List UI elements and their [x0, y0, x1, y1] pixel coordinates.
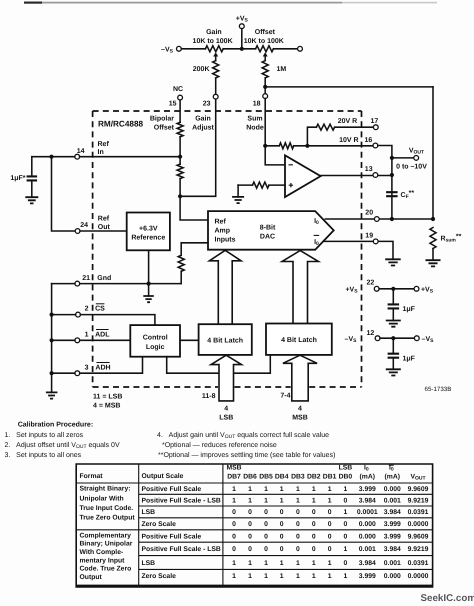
- svg-text:DB4: DB4: [275, 473, 289, 480]
- wire sum node to 10V R: [265, 145, 279, 147]
- svg-text:Positive Full Scale - LSB: Positive Full Scale - LSB: [142, 497, 221, 504]
- svg-text:1: 1: [296, 486, 300, 493]
- svg-text:0: 0: [232, 533, 236, 540]
- svg-text:Positive Full Scale: Positive Full Scale: [142, 486, 202, 493]
- svg-text:1M: 1M: [277, 66, 287, 73]
- svg-text:1: 1: [296, 560, 300, 567]
- wire Rsum to ground: [432, 249, 434, 261]
- node ADL rail junction: [50, 338, 54, 342]
- svg-text:Complementary: Complementary: [80, 532, 132, 539]
- node sum node: [263, 144, 267, 148]
- svg-text:1: 1: [85, 331, 89, 338]
- wire ground to input resistor: [238, 184, 252, 186]
- wire Ref In: [32, 156, 180, 158]
- svg-text:CS: CS: [95, 306, 105, 313]
- svg-text:0.001: 0.001: [384, 560, 401, 567]
- svg-text:NC: NC: [173, 86, 183, 93]
- resistor bipolar offset lower: [177, 164, 183, 179]
- svg-text:Unipolar With: Unipolar With: [80, 495, 124, 502]
- control logic U4: [130, 325, 180, 357]
- node -Vs bypass junction: [391, 336, 395, 340]
- wire junction to right rail: [265, 86, 433, 88]
- wire reference to gnd line: [148, 250, 150, 296]
- wire to bypass cap: [392, 338, 394, 354]
- ground +Vs bypass: [386, 321, 401, 327]
- svg-text:Ref: Ref: [98, 214, 110, 222]
- svg-text:0: 0: [312, 509, 316, 516]
- svg-text:1: 1: [232, 573, 236, 580]
- svg-text:Calibration Procedure:: Calibration Procedure:: [18, 421, 93, 429]
- svg-text:Output Scale: Output Scale: [142, 473, 184, 480]
- svg-text:Bipolar: Bipolar: [150, 114, 174, 122]
- capacitor 1uF (-Vs bypass): [388, 354, 400, 358]
- capacitor 1uF* (ref bypass): [27, 176, 37, 180]
- node I0 right rail junction: [431, 217, 435, 221]
- svg-text:Gnd: Gnd: [97, 274, 111, 282]
- svg-text:0: 0: [328, 546, 332, 553]
- wire to ref-in junction: [179, 137, 181, 164]
- svg-text:DB1: DB1: [323, 473, 337, 480]
- ground -Vs bypass: [386, 369, 401, 375]
- bus arrow latch2 to DAC: [282, 251, 318, 324]
- terminal +Vs right: [414, 286, 419, 291]
- svg-text:DB7: DB7: [227, 473, 241, 480]
- svg-text:1: 1: [280, 497, 284, 504]
- svg-text:12: 12: [367, 330, 375, 337]
- wire pin22 to +Vs terminal: [379, 288, 414, 290]
- svg-text:1: 1: [232, 560, 236, 567]
- svg-text:1: 1: [248, 573, 252, 580]
- svg-text:17: 17: [371, 118, 379, 125]
- svg-text:0.0000: 0.0000: [408, 521, 429, 528]
- svg-text:3.984: 3.984: [359, 497, 376, 504]
- wire ADH to control logic bottom: [52, 357, 143, 374]
- svg-text:MSB: MSB: [226, 465, 241, 472]
- svg-text:I0: I0: [314, 218, 319, 226]
- svg-text:–VS: –VS: [345, 336, 358, 344]
- svg-text:0: 0: [344, 521, 348, 528]
- wire left rail to Ref Out: [52, 157, 75, 231]
- svg-text:65-1733B: 65-1733B: [425, 386, 452, 393]
- svg-text:2. Adjust offset until VOUT: 2. Adjust offset until VOUT equals 0V: [5, 441, 120, 450]
- svg-text:0: 0: [264, 509, 268, 516]
- op-amp U1: [285, 155, 321, 197]
- svg-text:Control: Control: [143, 334, 168, 342]
- svg-text:0: 0: [232, 509, 236, 516]
- svg-text:0: 0: [248, 546, 252, 553]
- terminal Vout: [414, 156, 419, 161]
- wire DAC ref amp input 2: [181, 243, 208, 256]
- svg-text:Output: Output: [80, 574, 103, 581]
- svg-text:1: 1: [232, 497, 236, 504]
- svg-text:**Optional — improves settling: **Optional — improves settling time (see…: [158, 451, 335, 459]
- wire Gnd line: [52, 283, 182, 285]
- svg-text:1: 1: [264, 560, 268, 567]
- right open terminal: [298, 46, 303, 51]
- wire 1uF cap branch: [31, 157, 33, 177]
- svg-text:13: 13: [365, 166, 373, 173]
- svg-text:0: 0: [296, 533, 300, 540]
- wire pin12 to -Vs terminal: [380, 337, 414, 339]
- bus arrow latch1 to DAC: [209, 250, 241, 324]
- wire pin18 down to sum node: [265, 99, 285, 165]
- svg-text:0: 0: [248, 533, 252, 540]
- svg-text:I0: I0: [389, 465, 394, 473]
- svg-text:1μF: 1μF: [403, 355, 416, 362]
- svg-text:0: 0: [344, 560, 348, 567]
- ground lower rail: [46, 392, 58, 398]
- svg-text:0: 0: [296, 546, 300, 553]
- svg-text:+VS: +VS: [345, 287, 358, 295]
- output scale truth table: [76, 464, 432, 587]
- svg-text:1: 1: [232, 486, 236, 493]
- svg-text:*Optional — reduces reference: *Optional — reduces reference noise: [162, 441, 277, 449]
- wire pin23 down and left to chain: [182, 99, 216, 196]
- capacitor 1uF (+Vs bypass): [388, 304, 400, 308]
- svg-text:–VS: –VS: [161, 46, 174, 54]
- svg-text:Offset: Offset: [255, 28, 276, 36]
- calibration procedure notes: [5, 421, 336, 459]
- svg-text:3.984: 3.984: [359, 560, 376, 567]
- svg-text:Ref: Ref: [215, 217, 227, 225]
- svg-text:1. Set inputs to all zeros: 1. Set inputs to all zeros: [5, 431, 84, 439]
- svg-text:24: 24: [80, 222, 88, 229]
- wire cap to ground: [392, 308, 394, 320]
- svg-text:I0: I0: [314, 239, 319, 247]
- svg-text:3.999: 3.999: [359, 486, 376, 493]
- resistor 20V R: [316, 124, 334, 130]
- svg-text:1: 1: [280, 560, 284, 567]
- ground op-amp + input: [237, 185, 239, 197]
- svg-text:9.9219: 9.9219: [408, 546, 429, 553]
- svg-text:Sum: Sum: [247, 116, 262, 123]
- node pot junction: [240, 47, 244, 51]
- wire 1M to junction: [264, 78, 266, 94]
- svg-text:Reference: Reference: [131, 234, 165, 242]
- svg-text:Binary; Unipolar: Binary; Unipolar: [80, 541, 133, 548]
- resistor Rsum**: [430, 228, 436, 249]
- node +Vs bypass junction: [391, 287, 395, 291]
- svg-text:0: 0: [232, 521, 236, 528]
- svg-text:4 Bit Latch: 4 Bit Latch: [281, 336, 317, 344]
- svg-text:9.9609: 9.9609: [408, 486, 429, 493]
- svg-text:1: 1: [328, 486, 332, 493]
- node reference gnd junction: [147, 282, 151, 286]
- wire to bypass cap: [392, 289, 394, 305]
- svg-text:16: 16: [365, 137, 373, 144]
- svg-text:0: 0: [312, 533, 316, 540]
- wire lower left rail: [51, 284, 53, 393]
- svg-text:1: 1: [312, 560, 316, 567]
- svg-text:0: 0: [280, 521, 284, 528]
- wire op-amp output to pin 13: [321, 175, 392, 177]
- svg-text:0: 0: [264, 521, 268, 528]
- svg-text:0: 0: [312, 546, 316, 553]
- svg-text:Code. True Zero: Code. True Zero: [80, 566, 132, 573]
- svg-text:SeekIC.com: SeekIC.com: [421, 593, 474, 604]
- svg-text:1: 1: [328, 573, 332, 580]
- svg-text:2: 2: [85, 306, 89, 313]
- svg-text:0: 0: [296, 509, 300, 516]
- svg-text:Amp: Amp: [215, 227, 231, 234]
- svg-text:3.999: 3.999: [359, 573, 376, 580]
- svg-text:Gain: Gain: [206, 28, 222, 36]
- svg-text:1: 1: [344, 573, 348, 580]
- svg-text:1: 1: [328, 560, 332, 567]
- svg-text:3.984: 3.984: [384, 546, 401, 553]
- wire I0 output to pin 20: [325, 218, 433, 220]
- wire pin15 into box: [179, 100, 181, 122]
- svg-text:In: In: [98, 149, 104, 156]
- svg-text:Straight Binary:: Straight Binary:: [80, 486, 131, 493]
- svg-text:MSB: MSB: [292, 414, 308, 421]
- wire 20V R to pin 17: [335, 126, 374, 128]
- svg-text:11-8: 11-8: [202, 393, 216, 400]
- svg-text:Zero Scale: Zero Scale: [142, 573, 177, 580]
- wire 200K to pin 23: [215, 78, 217, 94]
- svg-text:0.000: 0.000: [359, 521, 376, 528]
- svg-text:200K: 200K: [193, 66, 210, 73]
- svg-text:0: 0: [328, 533, 332, 540]
- top page rule: [24, 2, 42, 4]
- resistor 10V R: [279, 143, 293, 149]
- svg-text:0: 0: [232, 546, 236, 553]
- svg-text:1: 1: [264, 573, 268, 580]
- svg-text:1: 1: [344, 486, 348, 493]
- svg-text:Positive Full Scale - LSB: Positive Full Scale - LSB: [142, 546, 221, 553]
- svg-text:1: 1: [344, 546, 348, 553]
- svg-text:0.001: 0.001: [359, 546, 376, 553]
- svg-text:I0: I0: [364, 465, 369, 473]
- svg-text:0: 0: [280, 533, 284, 540]
- node CF to I0 line: [390, 217, 394, 221]
- svg-text:0: 0: [248, 509, 252, 516]
- svg-text:ADL: ADL: [95, 331, 110, 338]
- node output/CF junction: [390, 173, 394, 177]
- svg-text:True Zero Output: True Zero Output: [80, 515, 136, 522]
- svg-text:LSB: LSB: [219, 414, 233, 421]
- svg-text:–VS: –VS: [422, 336, 435, 344]
- svg-text:1: 1: [264, 497, 268, 504]
- svg-text:RM/RC4888: RM/RC4888: [98, 120, 143, 129]
- svg-text:0.0391: 0.0391: [408, 509, 429, 516]
- svg-text:+VS: +VS: [236, 16, 249, 24]
- svg-text:0: 0: [248, 521, 252, 528]
- svg-text:1: 1: [312, 573, 316, 580]
- node CS rail junction: [50, 313, 54, 317]
- svg-text:DB3: DB3: [291, 473, 305, 480]
- resistor ref amp input to gnd: [178, 255, 184, 271]
- svg-text:Logic: Logic: [146, 343, 165, 351]
- svg-text:VOUT: VOUT: [410, 473, 425, 481]
- 4 bit latch LSB U5: [199, 324, 252, 355]
- wire Ref Out to reference box: [80, 230, 127, 232]
- svg-text:With Comple-: With Comple-: [80, 549, 124, 556]
- svg-text:1: 1: [312, 486, 316, 493]
- svg-text:0: 0: [344, 497, 348, 504]
- svg-text:1: 1: [312, 497, 316, 504]
- svg-text:True Input Code.: True Input Code.: [80, 505, 134, 512]
- wire pin16 to output corner: [378, 146, 392, 220]
- wire Offset pot to right terminal: [273, 48, 297, 50]
- node gain-adjust junction: [178, 194, 182, 198]
- ground pin 19: [385, 259, 401, 265]
- svg-text:0: 0: [344, 533, 348, 540]
- svg-text:Positive Full Scale: Positive Full Scale: [142, 533, 202, 540]
- bus arrow 4 MSB input: [283, 355, 317, 401]
- svg-text:ADH: ADH: [95, 364, 110, 371]
- svg-text:DB6: DB6: [243, 473, 257, 480]
- node feedback junction: [305, 144, 309, 148]
- svg-text:LSB: LSB: [339, 465, 353, 472]
- wire ADL to control logic: [52, 339, 131, 341]
- wire up to 20V R: [307, 127, 316, 146]
- svg-text:Out: Out: [98, 224, 111, 231]
- svg-text:1: 1: [280, 573, 284, 580]
- svg-text:VOUT: VOUT: [409, 147, 424, 155]
- svg-text:1: 1: [248, 486, 252, 493]
- ground reference: [143, 296, 154, 302]
- svg-text:+6.3V: +6.3V: [139, 225, 158, 232]
- ground ref bypass: [25, 197, 38, 203]
- svg-text:3: 3: [85, 364, 89, 371]
- svg-text:0: 0: [312, 521, 316, 528]
- 8-bit DAC U2: [208, 211, 334, 250]
- svg-text:Offset: Offset: [154, 123, 175, 131]
- node 1M output junction: [263, 85, 267, 89]
- svg-text:Zero Scale: Zero Scale: [142, 521, 177, 528]
- svg-text:0.0391: 0.0391: [408, 560, 429, 567]
- resistor op-amp + input: [253, 182, 270, 188]
- wire resistor to op-amp: [269, 184, 285, 186]
- svg-text:22: 22: [367, 279, 375, 286]
- node ref-in junction: [178, 155, 182, 159]
- svg-text:21: 21: [82, 275, 90, 282]
- svg-text:0 to –10V: 0 to –10V: [396, 163, 427, 170]
- svg-text:0.000: 0.000: [359, 533, 376, 540]
- svg-text:11 = LSB: 11 = LSB: [93, 393, 122, 400]
- wire I0bar output to pin 19: [324, 241, 393, 259]
- wire to gain-adjust junction: [180, 179, 208, 220]
- svg-text:1: 1: [248, 560, 252, 567]
- wire CS to control logic: [52, 315, 155, 326]
- svg-text:0.000: 0.000: [384, 573, 401, 580]
- svg-text:9.9609: 9.9609: [408, 533, 429, 540]
- svg-text:3.999: 3.999: [384, 521, 401, 528]
- svg-text:Format: Format: [80, 473, 104, 480]
- 4 bit latch MSB U6: [266, 324, 332, 355]
- node ADH rail junction: [50, 371, 54, 375]
- ground Rsum: [426, 260, 441, 266]
- node Vout branch: [390, 156, 394, 160]
- wire between pots: [223, 48, 255, 50]
- svg-text:3.984: 3.984: [384, 509, 401, 516]
- svg-text:10K to 100K: 10K to 100K: [244, 38, 284, 45]
- svg-text:1: 1: [296, 573, 300, 580]
- wire Vout stub: [392, 157, 414, 159]
- wire right rail down to I0 line: [432, 87, 434, 219]
- svg-text:0.000: 0.000: [384, 486, 401, 493]
- svg-text:4 Bit Latch: 4 Bit Latch: [207, 337, 243, 345]
- svg-text:LSB: LSB: [142, 560, 156, 567]
- wire -Vs to Gain pot: [181, 48, 205, 50]
- svg-text:(mA): (mA): [385, 473, 400, 480]
- svg-text:Adjust: Adjust: [192, 123, 214, 131]
- svg-text:0.0001: 0.0001: [357, 509, 378, 516]
- svg-text:0: 0: [280, 509, 284, 516]
- wire control logic enable to latch 2: [167, 355, 271, 373]
- svg-text:1: 1: [280, 486, 284, 493]
- svg-text:Gain: Gain: [195, 114, 211, 122]
- svg-text:0: 0: [328, 509, 332, 516]
- svg-text:mentary Input: mentary Input: [80, 557, 126, 564]
- resistor bipolar offset upper: [177, 122, 183, 137]
- svg-text:DAC: DAC: [260, 233, 275, 240]
- svg-text:9.9219: 9.9219: [408, 497, 429, 504]
- svg-text:15: 15: [169, 101, 177, 108]
- svg-text:DB0: DB0: [339, 473, 353, 480]
- wire cap to ground: [31, 180, 33, 197]
- svg-text:0: 0: [328, 521, 332, 528]
- svg-text:10K to 100K: 10K to 100K: [193, 38, 233, 45]
- svg-text:3. Set inputs to all ones: 3. Set inputs to all ones: [5, 451, 82, 459]
- svg-text:1μF: 1μF: [403, 306, 416, 313]
- svg-text:4: 4: [224, 405, 228, 412]
- svg-text:1: 1: [264, 486, 268, 493]
- svg-text:4: 4: [298, 405, 302, 412]
- svg-text:0: 0: [296, 521, 300, 528]
- wire control logic to latch 1: [180, 339, 199, 341]
- svg-text:DB2: DB2: [307, 473, 321, 480]
- +6.3V Reference U3: [127, 213, 170, 251]
- wire resistor to gnd line: [180, 271, 182, 283]
- svg-text:Ref: Ref: [98, 140, 110, 148]
- svg-text:10V R: 10V R: [339, 137, 358, 144]
- svg-text:20V R: 20V R: [338, 118, 357, 125]
- svg-text:3.999: 3.999: [384, 533, 401, 540]
- svg-text:0: 0: [264, 546, 268, 553]
- svg-text:8-Bit: 8-Bit: [260, 223, 276, 231]
- svg-text:18: 18: [253, 101, 261, 108]
- dashed box RM/RC4888 package outline: [93, 111, 362, 387]
- wire cap to ground: [392, 358, 394, 370]
- terminal -Vs right: [414, 336, 419, 341]
- capacitor CF**: [386, 192, 398, 196]
- svg-text:4 = MSB: 4 = MSB: [93, 403, 120, 410]
- svg-text:LSB: LSB: [142, 509, 156, 516]
- svg-text:1: 1: [328, 497, 332, 504]
- svg-text:1: 1: [344, 509, 348, 516]
- svg-text:4. Adjust gain until VOUT eq: 4. Adjust gain until VOUT equals correct…: [157, 431, 329, 440]
- svg-text:+VS: +VS: [421, 287, 434, 295]
- svg-text:1: 1: [296, 497, 300, 504]
- wire 10V R to pin 16: [294, 145, 373, 147]
- svg-text:1μF*: 1μF*: [10, 175, 25, 182]
- svg-text:(mA): (mA): [360, 473, 375, 480]
- svg-text:19: 19: [365, 233, 373, 240]
- node left rail ref junction: [49, 155, 53, 159]
- svg-text:0: 0: [280, 546, 284, 553]
- svg-text:0.0000: 0.0000: [408, 573, 429, 580]
- wire +Vs to pot junction: [241, 29, 243, 49]
- svg-text:0: 0: [264, 533, 268, 540]
- svg-text:DB5: DB5: [259, 473, 273, 480]
- svg-text:0.001: 0.001: [384, 497, 401, 504]
- svg-text:20: 20: [365, 210, 373, 217]
- svg-text:Node: Node: [246, 124, 264, 132]
- svg-text:7-4: 7-4: [280, 392, 290, 399]
- bus arrow 4 LSB input: [211, 355, 242, 401]
